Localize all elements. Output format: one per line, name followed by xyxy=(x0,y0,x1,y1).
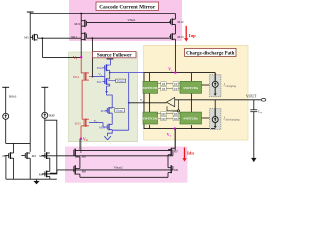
svg-text:M5: M5 xyxy=(24,36,29,40)
svg-text:SWITCHc: SWITCHc xyxy=(183,117,198,121)
svg-text:IBIAS: IBIAS xyxy=(9,95,17,99)
svg-text:SWITCHb: SWITCHb xyxy=(143,86,158,90)
svg-text:DN: DN xyxy=(162,113,166,116)
svg-text:DN: DN xyxy=(162,118,166,121)
svg-text:M18: M18 xyxy=(101,109,107,113)
svg-text:Cascode Current Mirror: Cascode Current Mirror xyxy=(99,4,156,10)
svg-text:UP: UP xyxy=(162,83,166,86)
svg-text:UP: UP xyxy=(174,83,178,86)
svg-text:UP: UP xyxy=(162,88,166,91)
svg-text:M11: M11 xyxy=(71,35,77,39)
svg-text:M9: M9 xyxy=(174,168,179,172)
svg-text:DN: DN xyxy=(174,118,178,121)
svg-text:M4: M4 xyxy=(39,172,44,176)
svg-text:M17: M17 xyxy=(97,80,103,84)
svg-text:M16: M16 xyxy=(97,66,103,70)
svg-text:VOUT: VOUT xyxy=(246,95,257,99)
svg-text:Vbias1: Vbias1 xyxy=(116,110,125,113)
svg-text:Vbias2: Vbias2 xyxy=(117,80,126,83)
svg-text:M1: M1 xyxy=(2,154,7,158)
svg-text:Iup: Iup xyxy=(189,33,196,38)
svg-text:M15: M15 xyxy=(75,122,81,126)
svg-text:Charge-discharge Path: Charge-discharge Path xyxy=(186,52,235,57)
svg-text:M2: M2 xyxy=(32,154,37,158)
svg-text:SWITCHd: SWITCHd xyxy=(143,117,158,121)
svg-text:IREF: IREF xyxy=(49,114,56,118)
svg-text:M12: M12 xyxy=(177,20,183,24)
svg-text:s: s xyxy=(76,58,77,61)
svg-text:M7: M7 xyxy=(174,150,179,154)
svg-text:charging: charging xyxy=(225,84,236,88)
svg-text:DN: DN xyxy=(174,113,178,116)
svg-text:M6: M6 xyxy=(82,169,87,173)
svg-text:M8: M8 xyxy=(82,154,87,158)
svg-text:Vbias2: Vbias2 xyxy=(113,166,122,170)
svg-text:a: a xyxy=(96,122,97,124)
svg-text:M13: M13 xyxy=(177,35,183,39)
svg-text:M10: M10 xyxy=(74,22,80,26)
svg-text:SWITCHa: SWITCHa xyxy=(183,86,198,90)
svg-text:Idn: Idn xyxy=(187,151,194,156)
svg-text:a: a xyxy=(143,101,144,103)
svg-text:UP: UP xyxy=(174,88,178,91)
svg-text:discharging: discharging xyxy=(225,117,240,121)
svg-text:M14: M14 xyxy=(73,75,79,79)
svg-text:Source Follower: Source Follower xyxy=(97,54,133,59)
svg-text:Vbia1: Vbia1 xyxy=(127,18,136,22)
